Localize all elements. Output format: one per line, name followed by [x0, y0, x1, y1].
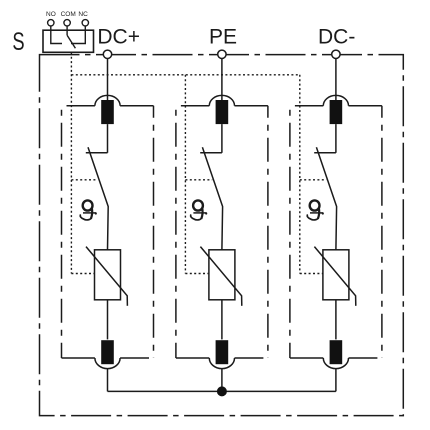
svg-text:NO: NO [46, 11, 56, 18]
svg-text:NC: NC [78, 11, 88, 18]
svg-text:PE: PE [209, 26, 237, 49]
svg-text:DC-: DC- [318, 26, 355, 49]
svg-text:COM: COM [61, 11, 76, 18]
svg-text:DC+: DC+ [97, 26, 140, 49]
svg-text:S: S [12, 28, 24, 56]
